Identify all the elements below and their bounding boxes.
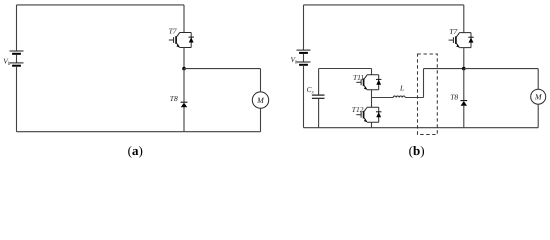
svg-text:T12: T12 (352, 105, 364, 114)
wire: jog to junction horizontal (424, 68, 464, 70)
wire: left side lower (a) (16, 66, 18, 132)
svg-text:L: L (399, 83, 404, 92)
wire: capacitor branch lower (b) (318, 98, 320, 127)
wire: top side (a) (17, 4, 185, 6)
wire: left side upper (a) (16, 5, 18, 51)
dashed box (418, 54, 438, 135)
transistor T12 IGBT (356, 107, 381, 122)
transistor T11 IGBT (356, 75, 381, 90)
battery Vb (b) (297, 50, 311, 65)
wire: T8 branch lower (b) (463, 106, 465, 128)
wire: bottom side (a) (17, 131, 261, 133)
wire: mid node to inductor (372, 97, 394, 99)
transistor T7 (b) IGBT (449, 33, 474, 48)
svg-text:M: M (534, 93, 543, 102)
diode T8 (a) (181, 102, 188, 107)
wire: left side upper (b) (303, 5, 305, 50)
node junction dot (a) (182, 67, 186, 71)
transistor T7 (a) IGBT (169, 33, 194, 48)
wire: between T11 and T12 (371, 90, 373, 108)
wire: motor branch lower (a) (260, 108, 262, 131)
wire: T7 emitter to junction (b) (463, 48, 465, 69)
svg-text:(a): (a) (128, 143, 143, 158)
svg-text:(b): (b) (409, 143, 425, 158)
svg-text:M: M (256, 96, 265, 105)
wire: half-bridge top rail (b) (319, 68, 372, 70)
wire: motor branch lower (b) (537, 104, 539, 128)
svg-text:T11: T11 (353, 73, 364, 82)
svg-text:T7: T7 (449, 27, 457, 36)
wire: left side lower (b) (303, 65, 305, 128)
motor M (b) (531, 89, 546, 104)
inductor L coil (393, 96, 405, 98)
wire: junction to motor (b) (464, 68, 538, 70)
battery Vb (a) (10, 51, 24, 66)
motor M (a) (252, 92, 268, 108)
wire: T7 collector stub (b) (463, 5, 465, 33)
wire: T7 emitter to junction (a) (183, 48, 185, 69)
svg-text:T8: T8 (170, 94, 178, 103)
wire: T7 collector stub (a) (183, 5, 185, 33)
node junction dot (b) (462, 67, 466, 71)
wire: capacitor branch upper (b) (318, 69, 320, 96)
wire: jog vertical (423, 69, 425, 98)
wire: inductor to jog (405, 97, 423, 99)
wire: bottom side (b) (304, 127, 539, 129)
svg-text:T8: T8 (450, 92, 458, 101)
wire: T8 branch lower (a) (183, 107, 185, 132)
wire: mid horizontal to motor (a) (184, 68, 261, 70)
wire: motor branch upper (b) (537, 69, 539, 90)
wire: T8 branch upper (b) (463, 69, 465, 101)
wire: T11 collector stub (371, 69, 373, 75)
wire: T8 branch upper (a) (183, 69, 185, 103)
wire: top side (b) (304, 4, 464, 6)
capacitor Cx (312, 94, 325, 96)
wire: T12 emitter stub (371, 122, 373, 128)
wire: motor branch upper (a) (260, 69, 262, 92)
diode T8 (b) (460, 101, 467, 106)
svg-text:T7: T7 (169, 27, 177, 36)
